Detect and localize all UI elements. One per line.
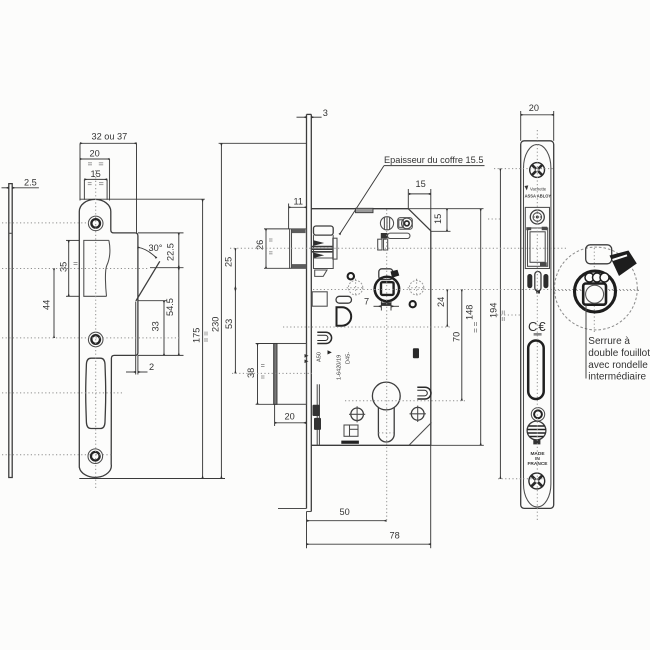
svg-text:avec rondelle: avec rondelle (588, 360, 648, 371)
follower tail (380, 301, 382, 310)
svg-text:intermédiaire: intermédiaire (588, 372, 646, 383)
svg-text:38: 38 (246, 368, 256, 378)
dim 22.5 (178, 233, 180, 268)
detail view circle (555, 247, 638, 330)
latch cutout (84, 240, 109, 296)
cross screw left of cylinder (351, 408, 364, 421)
deadbolt (274, 344, 307, 405)
svg-text:D45-: D45- (346, 352, 352, 364)
svg-text:2.5: 2.5 (24, 178, 37, 188)
deadbolt guide lines (316, 384, 318, 445)
svg-text:53: 53 (224, 319, 234, 329)
side plate joint tick (9, 232, 12, 234)
dark rects below deadbolt (313, 405, 320, 416)
case right edge (430, 231, 432, 445)
dark square right (413, 348, 419, 358)
dim 2 ext stubs (135, 355, 137, 374)
svg-text:44: 44 (42, 300, 52, 310)
svg-text:35: 35 (59, 262, 69, 272)
rondelle wedge dark (610, 251, 637, 277)
top cross screw (530, 163, 545, 178)
dim 230 (220, 144, 222, 479)
svg-text:54.5: 54.5 (165, 298, 175, 316)
dark bar bottom (341, 441, 359, 444)
latch axis solid ext (150, 267, 184, 269)
case bottom edge (311, 444, 431, 446)
svg-text:24: 24 (436, 297, 446, 307)
svg-text:ASSA ABLOY: ASSA ABLOY (525, 194, 552, 199)
svg-text:15: 15 (433, 214, 443, 224)
svg-text:3: 3 (323, 108, 328, 118)
dim 38 (256, 343, 274, 345)
case top edge (311, 208, 408, 210)
svg-text:20: 20 (529, 103, 539, 113)
bottom screw hole (88, 449, 103, 464)
svg-text:20: 20 (90, 149, 100, 159)
svg-text:30°: 30° (149, 243, 163, 253)
capsule screw right (398, 218, 413, 230)
top screw hole (88, 216, 103, 231)
30deg angle arc (138, 247, 157, 258)
dim 11 latch protrusion (288, 204, 290, 229)
dim 35 (68, 240, 70, 296)
latch head outside (290, 229, 307, 268)
dim 15 top (84, 178, 107, 180)
svg-text:Serrure à: Serrure à (588, 336, 630, 347)
middle screw hole (88, 332, 103, 347)
cross screw right of cylinder (411, 407, 424, 420)
latch in window (528, 228, 548, 266)
euro cylinder (372, 382, 400, 410)
dim 54.5 (178, 268, 180, 356)
leader to text (585, 305, 587, 379)
faceplate (side) (306, 114, 308, 508)
dim 26 (264, 228, 290, 230)
svg-text:194: 194 (488, 303, 498, 318)
D-shape part (337, 307, 352, 325)
white square on faceplate (312, 292, 327, 306)
dim 7 (374, 305, 381, 307)
230 top ref line (219, 142, 307, 144)
svg-text:2: 2 (149, 362, 154, 372)
svg-text:A50: A50 (317, 352, 323, 362)
ext line 32ou37 right (136, 143, 138, 233)
ext line y=300.7 (138, 300, 167, 302)
dim 33 (163, 301, 165, 356)
latch bolt face curve (105, 240, 110, 296)
svg-text:230: 230 (211, 317, 221, 332)
lip 30deg diagonal (136, 261, 160, 301)
small dark donut lower-right of hub (410, 301, 416, 307)
dim 50 (306, 512, 308, 549)
scallops (585, 273, 594, 282)
top narrow section lines 15 wide (83, 179, 85, 199)
two small rects above follower (378, 239, 382, 250)
latch body inside case (314, 226, 334, 235)
torx screw (530, 210, 544, 224)
dim 70 (461, 290, 463, 401)
dim 20 right plate (520, 111, 522, 141)
ext line y=355.4 right (138, 354, 184, 356)
svg-text:33: 33 (151, 321, 161, 331)
bottom cross screw (529, 473, 545, 489)
side plate (9, 184, 12, 478)
dim 194 (499, 169, 501, 479)
clip part right (417, 387, 431, 399)
svg-text:FRANCE: FRANCE (528, 461, 549, 467)
dim 20 deadbolt (274, 404, 276, 426)
plate inner face (524, 144, 551, 507)
svg-text:175: 175 (192, 328, 202, 343)
inscribed circle (586, 285, 604, 303)
vachette logo (525, 185, 529, 190)
svg-text:148: 148 (464, 305, 474, 320)
dim 25 / 53 (234, 248, 236, 288)
follower square hole 7mm (381, 282, 394, 295)
post circle with hatch (380, 217, 393, 230)
ext lines 35 (66, 239, 79, 241)
rondelle cap (586, 245, 612, 264)
dim 20 top (80, 158, 110, 160)
svg-text:1-6420/19: 1-6420/19 (337, 355, 343, 380)
lip inner line (135, 302, 137, 356)
ext line y=232.9 right (138, 232, 184, 234)
follower hub circle (375, 277, 399, 301)
case bottom-right diagonal (409, 423, 432, 446)
svg-text:7: 7 (364, 297, 369, 307)
dim 2.5 (2, 187, 9, 189)
deadbolt slot right plate (528, 341, 544, 400)
dim 3 faceplate (297, 116, 307, 118)
vertical center dotted left plate (95, 170, 97, 488)
dim 2 lip (126, 371, 136, 373)
svg-text:double fouillot: double fouillot (588, 348, 650, 359)
follower cap (379, 269, 393, 280)
dashed cross circle left (348, 281, 362, 295)
svg-text:Epaisseur du coffre 15.5: Epaisseur du coffre 15.5 (384, 155, 483, 165)
plate top tangent line (80, 198, 205, 200)
svg-text:50: 50 (340, 507, 350, 517)
dim 175 (202, 199, 204, 478)
stadium pill (336, 296, 352, 303)
deadbolt oval slot (86, 358, 106, 428)
dim 15 chamfer top (407, 189, 409, 209)
follower wedge (rondelle tab) (391, 270, 400, 278)
dim 44 (53, 269, 55, 338)
svg-text:70: 70 (451, 332, 461, 342)
small screw (531, 408, 544, 421)
plate outer (521, 141, 554, 509)
svg-text:15: 15 (416, 179, 426, 189)
dim 78 (430, 445, 432, 548)
svg-text:25: 25 (224, 257, 234, 267)
top narrow section lines 20 wide (79, 143, 81, 200)
svg-text:11: 11 (294, 196, 304, 206)
dark square + pill (381, 233, 388, 239)
svg-text:78: 78 (390, 531, 400, 541)
plate bottom line (79, 478, 225, 480)
dim 15 chamfer right (431, 230, 451, 232)
faceplate stamp marks (305, 354, 309, 358)
lug marks (88, 163, 104, 185)
dashed cross circle right (409, 281, 423, 295)
hub square (583, 284, 606, 305)
big hatched screw (527, 421, 546, 440)
hub ring (575, 271, 616, 312)
svg-text:22.5: 22.5 (166, 243, 176, 261)
case chamfer (408, 209, 431, 231)
dim 32 ou 37 (80, 142, 137, 144)
small dark donut upper-left of hub (348, 273, 354, 279)
dim 148 (480, 209, 482, 446)
window part (344, 425, 358, 436)
clip part upper (317, 332, 331, 343)
dotted axes left (2, 222, 89, 224)
slot on case top line (356, 208, 374, 212)
window rect (525, 207, 549, 268)
svg-text:Vachette: Vachette (530, 187, 547, 192)
dims right of case: 24 (446, 290, 448, 327)
strike plate outline (79, 199, 138, 477)
dotted axes middle (230, 247, 567, 249)
svg-text:32 ou 37: 32 ou 37 (92, 132, 128, 142)
svg-text:20: 20 (285, 411, 295, 421)
spring pins below window (527, 274, 532, 288)
right plate dotted axes (494, 168, 554, 170)
